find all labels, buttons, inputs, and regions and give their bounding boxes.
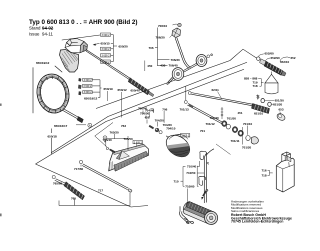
funnel cone xyxy=(265,74,278,83)
svg-text:94-11: 94-11 xyxy=(42,31,53,36)
circled A second xyxy=(103,136,107,140)
svg-text:650/19/12: 650/19/12 xyxy=(36,61,50,65)
hose end from coil xyxy=(62,109,78,119)
tube screw small xyxy=(207,162,209,164)
704 cluster screw xyxy=(149,125,154,129)
svg-text:765/20: 765/20 xyxy=(110,130,120,134)
svg-text:458: 458 xyxy=(160,63,165,67)
svg-text:451: 451 xyxy=(238,111,243,115)
svg-text:A: A xyxy=(104,136,106,140)
svg-text:650/19/12: 650/19/12 xyxy=(84,97,98,101)
lance A ribbed grip xyxy=(128,78,154,97)
svg-text:756/40: 756/40 xyxy=(138,107,148,111)
svg-text:701/11: 701/11 xyxy=(231,139,240,143)
svg-text:650/15: 650/15 xyxy=(101,41,111,45)
svg-text:650/16/17: 650/16/17 xyxy=(54,124,68,128)
svg-text:3 609 2: 3 609 2 xyxy=(102,48,111,51)
lance A from gun xyxy=(86,50,131,81)
svg-text:701: 701 xyxy=(200,129,205,133)
trolley tube top block xyxy=(172,28,181,38)
o-ring 651/30 xyxy=(261,99,265,103)
svg-text:3 609 2: 3 609 2 xyxy=(102,55,111,58)
plane bottom-left edge xyxy=(36,164,149,207)
long rail line 2 from left vertex xyxy=(36,69,245,164)
svg-text:3 609 2: 3 609 2 xyxy=(134,141,143,144)
svg-text:Issue: Issue xyxy=(29,31,40,36)
funnel string xyxy=(270,72,273,82)
spray gun body xyxy=(60,39,88,73)
trolley handle knob xyxy=(178,23,182,27)
wheel right xyxy=(196,55,207,67)
nozzle 652 collar xyxy=(260,59,267,66)
bracket 706 xyxy=(155,28,170,67)
svg-text:706/30: 706/30 xyxy=(171,58,181,62)
svg-text:651/20: 651/20 xyxy=(273,103,283,107)
svg-text:651/10: 651/10 xyxy=(254,112,264,116)
tiny parts left of box column 2 xyxy=(78,78,81,82)
svg-text:706: 706 xyxy=(162,108,167,112)
svg-text:717/60: 717/60 xyxy=(74,167,84,171)
wire leader 650/19/12 to coil xyxy=(55,66,62,72)
svg-text:652: 652 xyxy=(291,56,296,60)
svg-text:706/20: 706/20 xyxy=(156,36,166,40)
tube clamp lower xyxy=(199,176,206,185)
svg-text:701/20: 701/20 xyxy=(242,145,252,149)
label box column 2 xyxy=(83,78,93,93)
svg-text:706/40: 706/40 xyxy=(169,64,179,68)
svg-text:710/50: 710/50 xyxy=(186,171,196,175)
svg-text:70745 Leinfelden-Echterdingen: 70745 Leinfelden-Echterdingen xyxy=(231,220,283,224)
lance 717 ring xyxy=(79,160,82,163)
svg-text:650/20: 650/20 xyxy=(119,44,129,48)
wire vertical x=51.3 xyxy=(50,129,52,155)
svg-text:717: 717 xyxy=(98,188,103,192)
svg-text:704/10: 704/10 xyxy=(166,126,176,130)
svg-text:701/13: 701/13 xyxy=(180,108,190,112)
svg-text:650/40: 650/40 xyxy=(131,88,141,92)
svg-text:94-02: 94-02 xyxy=(42,26,54,31)
V pointer lines to connector A xyxy=(95,123,113,153)
axle xyxy=(184,63,198,72)
704 cluster ring xyxy=(159,131,162,134)
boxed label near round brush xyxy=(180,134,190,137)
svg-text:710/40: 710/40 xyxy=(187,165,197,169)
hose coil xyxy=(33,71,72,116)
trolley handle tube xyxy=(175,38,190,69)
hook part xyxy=(179,206,193,224)
svg-text:3 609 2: 3 609 2 xyxy=(83,85,92,88)
svg-text:765: 765 xyxy=(71,196,76,200)
svg-text:716: 716 xyxy=(262,168,267,172)
parts chain xyxy=(222,121,227,127)
svg-text:450: 450 xyxy=(147,64,152,68)
svg-text:718: 718 xyxy=(253,84,258,88)
svg-text:710: 710 xyxy=(174,179,179,183)
svg-text:710/60: 710/60 xyxy=(185,184,195,188)
nozzle 652 tip ring xyxy=(257,57,260,60)
lance M1 grip 651/10 xyxy=(252,104,270,114)
svg-text:62/11: 62/11 xyxy=(212,88,220,92)
axle stub below left wheel xyxy=(168,77,174,84)
svg-text:763: 763 xyxy=(121,124,126,128)
svg-text:701/12: 701/12 xyxy=(206,122,216,126)
round brush xyxy=(160,131,196,162)
lance 765/60 ring xyxy=(52,175,55,178)
detergent bottle xyxy=(276,152,294,192)
edge tick marks xyxy=(0,104,2,106)
svg-text:Stand: Stand xyxy=(29,26,41,31)
flat brush screws xyxy=(106,147,108,149)
cap 653 xyxy=(276,112,286,121)
leader to hook xyxy=(187,189,189,205)
svg-text:650/12: 650/12 xyxy=(118,88,128,92)
svg-text:3 609 2: 3 609 2 xyxy=(102,34,111,37)
long rail line 1 xyxy=(51,62,247,152)
label box column 1 xyxy=(101,33,111,63)
tube 710 xyxy=(204,155,206,203)
nozzle 652 ribbed body xyxy=(264,61,286,76)
washer and nut right of wheel xyxy=(207,55,210,58)
lance 765/60 grip xyxy=(64,182,85,200)
svg-text:701/40: 701/40 xyxy=(210,116,220,120)
704 cluster small ball xyxy=(155,128,159,132)
lance 717 xyxy=(82,164,128,190)
svg-text:3 609 2: 3 609 2 xyxy=(102,61,111,64)
motor unit xyxy=(181,200,219,226)
hose end nut xyxy=(77,117,83,123)
svg-text:653: 653 xyxy=(279,108,284,112)
lance 765/60 shaft xyxy=(55,179,67,186)
footer address block xyxy=(231,200,292,224)
circled A connector xyxy=(88,123,92,127)
svg-text:718: 718 xyxy=(262,173,267,177)
svg-text:650/19: 650/19 xyxy=(104,87,114,91)
bracket for box column 1 xyxy=(111,35,117,62)
svg-text:706: 706 xyxy=(149,46,154,50)
svg-text:A: A xyxy=(89,123,91,127)
wire leader box1 to gun xyxy=(62,35,100,40)
lance M2 701 xyxy=(184,101,187,104)
lance M1 62/11 xyxy=(191,93,253,106)
tube clamp top xyxy=(200,151,207,159)
funnel cup xyxy=(265,83,278,94)
flat brush xyxy=(109,144,149,171)
svg-text:652/10: 652/10 xyxy=(280,60,290,64)
svg-text:756/50: 756/50 xyxy=(140,112,150,116)
svg-text:650/18: 650/18 xyxy=(48,134,58,138)
svg-text:458: 458 xyxy=(145,116,150,120)
screw above motor xyxy=(202,191,207,197)
svg-text:3 609 2: 3 609 2 xyxy=(84,91,93,94)
svg-text:652/90: 652/90 xyxy=(271,56,281,60)
svg-text:701/50: 701/50 xyxy=(227,116,237,120)
lance A tip xyxy=(148,92,154,97)
wire vertical leader x=33 xyxy=(32,68,34,114)
o-ring 651/20 xyxy=(268,102,272,106)
svg-text:765/60: 765/60 xyxy=(53,182,63,186)
long diagonal upper with peak corner xyxy=(96,49,257,108)
svg-text:701/10: 701/10 xyxy=(243,122,253,126)
wheel left xyxy=(172,68,184,81)
svg-text:3 609 2: 3 609 2 xyxy=(84,79,93,82)
svg-text:706/10: 706/10 xyxy=(158,24,168,28)
tiny stack above o-rings xyxy=(256,95,259,100)
